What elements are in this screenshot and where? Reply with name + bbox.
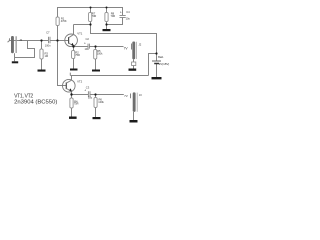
svg-text:10u: 10u: [88, 96, 93, 100]
svg-text:VT1: VT1: [77, 32, 82, 36]
svg-text:75R: 75R: [75, 53, 80, 57]
svg-text:9V(18V): 9V(18V): [159, 62, 170, 66]
svg-text:70R: 70R: [111, 14, 116, 18]
svg-text:Bat1: Bat1: [158, 55, 164, 59]
svg-text:C3: C3: [86, 85, 90, 89]
svg-text:470K: 470K: [61, 19, 67, 23]
svg-text:J3: J3: [139, 93, 142, 97]
svg-text:75R: 75R: [74, 102, 79, 106]
svg-text:VT2: VT2: [77, 80, 82, 84]
svg-text:100n: 100n: [45, 44, 51, 48]
svg-text:VT1, VT2: VT1, VT2: [14, 94, 33, 100]
svg-text:7V: 7V: [124, 94, 128, 98]
svg-text:2n3904 (BC550): 2n3904 (BC550): [14, 100, 57, 106]
svg-text:+: +: [120, 11, 122, 15]
svg-text:J1: J1: [19, 38, 22, 42]
svg-text:10u: 10u: [85, 47, 90, 51]
svg-text:1M: 1M: [45, 54, 49, 58]
svg-text:C7: C7: [46, 30, 50, 34]
svg-text:+: +: [84, 41, 86, 45]
svg-text:C2: C2: [86, 37, 90, 41]
svg-text:+: +: [84, 89, 86, 93]
svg-text:7V: 7V: [124, 47, 129, 51]
svg-text:100k: 100k: [97, 51, 103, 55]
svg-text:C4: C4: [126, 10, 130, 14]
svg-text:100k: 100k: [98, 100, 104, 104]
svg-text:70R: 70R: [92, 14, 97, 18]
svg-text:J2: J2: [139, 43, 142, 47]
svg-text:10u: 10u: [126, 17, 131, 21]
